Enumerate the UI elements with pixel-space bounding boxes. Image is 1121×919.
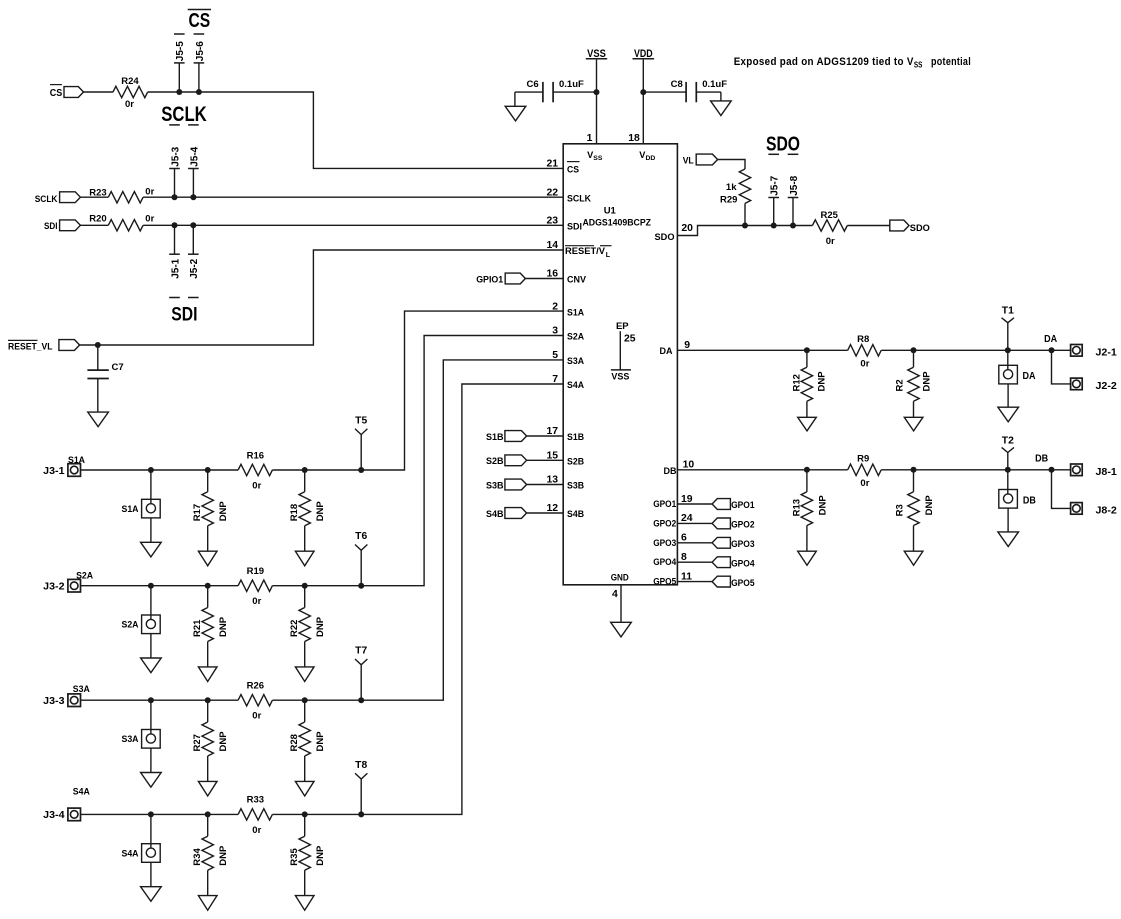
svg-text:0r: 0r — [252, 825, 261, 836]
svg-text:0r: 0r — [860, 478, 869, 489]
connector pad J3-2 — [43, 570, 93, 592]
connector pad J3-3 — [43, 684, 90, 707]
svg-text:CNV: CNV — [567, 275, 587, 285]
wire J2 node down to J2-2 — [1052, 350, 1071, 384]
svg-text:24: 24 — [681, 513, 693, 524]
test point T1 — [1002, 306, 1014, 351]
svg-text:21: 21 — [546, 159, 558, 170]
junction S1A at R18 — [302, 467, 308, 473]
svg-text:DNP: DNP — [924, 495, 935, 516]
svg-text:S2B: S2B — [486, 456, 504, 467]
svg-text:10: 10 — [683, 460, 695, 471]
svg-text:C6: C6 — [527, 79, 539, 90]
svg-text:R24: R24 — [121, 76, 139, 87]
svg-text:R19: R19 — [247, 566, 264, 577]
svg-text:0r: 0r — [826, 236, 835, 247]
svg-text:J2-1: J2-1 — [1096, 347, 1118, 358]
svg-text:DNP: DNP — [315, 616, 326, 637]
svg-text:DNP: DNP — [922, 371, 933, 392]
svg-text:S1B: S1B — [567, 432, 584, 442]
svg-text:GPO2: GPO2 — [653, 518, 676, 528]
wire J3-4 to R33 — [81, 813, 239, 815]
wire R20 to U1 pin 23 — [143, 224, 563, 226]
svg-text:CS: CS — [50, 87, 63, 99]
svg-text:R16: R16 — [247, 450, 264, 461]
ground below R35 — [295, 896, 314, 911]
svg-text:C8: C8 — [671, 79, 683, 90]
svg-text:0r: 0r — [252, 596, 261, 607]
svg-text:VL: VL — [683, 155, 694, 166]
svg-text:VSS: VSS — [587, 48, 606, 60]
power symbol VSS — [586, 48, 607, 144]
svg-text:J5-4: J5-4 — [189, 146, 200, 166]
junction S1A at T5 — [358, 467, 364, 473]
svg-text:R33: R33 — [247, 795, 264, 806]
net label CS (large) — [174, 9, 211, 34]
junction SDI at J5-2 — [190, 222, 196, 228]
test point T2 — [1002, 436, 1014, 470]
svg-text:J3-2: J3-2 — [43, 582, 65, 593]
junction S1A at R17 — [205, 467, 211, 473]
junction DA at R2 — [911, 347, 917, 353]
junction S3A at T7 — [358, 697, 364, 703]
svg-text:J5-3: J5-3 — [170, 146, 181, 166]
svg-text:R8: R8 — [857, 334, 869, 345]
svg-text:T8: T8 — [355, 760, 367, 771]
ground below C8 — [711, 101, 732, 116]
wire RESET_VL to bend then U1 pin 14 — [80, 250, 564, 345]
junction S4A at T8 — [358, 811, 364, 817]
input terminal S4B — [486, 508, 563, 520]
connector pad J8-2 — [1071, 503, 1117, 517]
svg-text:6: 6 — [681, 533, 687, 544]
svg-text:U1: U1 — [604, 205, 617, 216]
resistor R29 1k — [720, 169, 751, 226]
svg-text:8: 8 — [681, 552, 687, 563]
resistor R16 — [238, 450, 272, 491]
input terminal S1B — [486, 431, 563, 443]
svg-text:C7: C7 — [112, 362, 124, 373]
svg-text:1: 1 — [587, 133, 593, 144]
svg-text:J2-2: J2-2 — [1096, 381, 1118, 392]
svg-text:DNP: DNP — [218, 845, 229, 866]
exposed pad EP pin 25 — [611, 321, 636, 383]
svg-text:R3: R3 — [894, 504, 905, 516]
IC U1 ADGS1409BCPZ body — [563, 144, 677, 585]
svg-text:J3-4: J3-4 — [43, 810, 65, 821]
input terminal S3B — [486, 479, 563, 491]
wire R24 to CS bend then to U1 pin 21 — [148, 92, 564, 168]
svg-text:R29: R29 — [720, 194, 737, 205]
junction S3A at R27 — [205, 697, 211, 703]
svg-text:SDI: SDI — [171, 304, 197, 325]
output terminal SDO — [890, 220, 930, 234]
svg-text:T2: T2 — [1002, 436, 1014, 447]
wire J8 node down to J8-2 — [1052, 470, 1071, 509]
svg-text:S2A: S2A — [122, 620, 139, 631]
input terminal S2B — [486, 455, 563, 467]
svg-text:R18: R18 — [289, 504, 300, 521]
capacitor C6 — [515, 79, 597, 106]
svg-text:S3A: S3A — [122, 734, 139, 745]
wire J3-3 to R26 — [81, 699, 239, 701]
junction SCLK at J5-4 — [190, 194, 196, 200]
svg-text:ADGS1409BCPZ: ADGS1409BCPZ — [583, 218, 652, 229]
input terminal CS (net CS-bar) — [50, 85, 84, 99]
junction SDI at J5-1 — [172, 222, 178, 228]
output terminal GPO1 — [677, 499, 755, 512]
svg-text:T6: T6 — [355, 531, 367, 542]
svg-text:CS: CS — [188, 9, 210, 32]
U1 top pin labels — [587, 133, 656, 162]
jumper pin J5-3 — [169, 146, 181, 197]
svg-text:DNP: DNP — [315, 501, 326, 522]
connector pad J3-1 — [43, 455, 85, 477]
svg-text:R2: R2 — [894, 379, 905, 391]
svg-text:Exposed pad on ADGS1209 tied t: Exposed pad on ADGS1209 tied to V — [734, 56, 914, 68]
svg-text:SDI: SDI — [567, 221, 582, 231]
svg-text:J5-5: J5-5 — [175, 41, 186, 61]
svg-text:GPO3: GPO3 — [653, 538, 676, 548]
wire R19 to bend then U1 — [272, 336, 563, 586]
svg-text:RESET_VL: RESET_VL — [8, 342, 53, 353]
junction S4A at R34 — [205, 811, 211, 817]
test point pad S1A — [122, 470, 161, 542]
svg-text:J8-2: J8-2 — [1096, 505, 1118, 516]
net label SDI (large) — [169, 298, 198, 326]
svg-text:S2A: S2A — [567, 332, 584, 342]
svg-text:R26: R26 — [247, 681, 264, 692]
U1 right pin names and numbers — [653, 223, 694, 587]
resistor R33 — [238, 795, 272, 836]
U1 left pin names — [565, 162, 612, 520]
svg-text:S2B: S2B — [567, 457, 584, 467]
wire R16 to bend then U1 — [272, 311, 563, 470]
junction DA at J2 — [1049, 347, 1055, 353]
svg-text:0r: 0r — [145, 186, 154, 197]
svg-text:R13: R13 — [791, 499, 802, 516]
svg-text:0r: 0r — [252, 480, 261, 491]
svg-text:19: 19 — [681, 494, 693, 505]
svg-text:DNP: DNP — [816, 371, 827, 392]
svg-text:DA: DA — [660, 346, 673, 356]
svg-text:GPO1: GPO1 — [653, 499, 676, 509]
svg-text:DB: DB — [1023, 495, 1036, 506]
svg-text:0.1uF: 0.1uF — [702, 79, 727, 90]
junction SCLK at J5-3 — [172, 194, 178, 200]
wire J3-2 to R19 — [81, 585, 239, 587]
svg-text:S3A: S3A — [73, 684, 90, 695]
wire R25 to SDO terminal — [847, 225, 890, 227]
junction S2A at R21 — [205, 583, 211, 589]
svg-text:GPIO1: GPIO1 — [476, 275, 504, 286]
ground below S1A pad — [141, 542, 162, 557]
svg-text:GPO4: GPO4 — [731, 558, 755, 569]
svg-text:DNP: DNP — [315, 731, 326, 752]
svg-text:S1A: S1A — [68, 455, 85, 466]
output terminal GPO5 — [677, 576, 755, 589]
jumper pin J5-2 — [188, 225, 200, 278]
junction DA at R12 — [804, 347, 810, 353]
test point pad S2A — [122, 586, 161, 658]
svg-text:DNP: DNP — [818, 495, 829, 516]
resistor R34 DNP — [192, 814, 229, 895]
jumper pin J5-4 — [188, 146, 200, 197]
connector pad J2-2 — [1071, 378, 1117, 392]
svg-text:S3B: S3B — [486, 480, 504, 491]
capacitor C7 — [87, 345, 123, 412]
svg-text:SS: SS — [914, 61, 923, 70]
svg-text:R22: R22 — [289, 620, 300, 637]
test point pad DA — [999, 350, 1036, 407]
svg-text:SCLK: SCLK — [567, 193, 591, 203]
svg-text:T5: T5 — [355, 415, 367, 426]
resistor R35 DNP — [289, 814, 326, 895]
resistor R12 DNP — [791, 350, 827, 417]
test point T6 — [355, 531, 367, 586]
svg-text:0r: 0r — [860, 359, 869, 370]
jumper pin J5-7 — [768, 175, 780, 225]
svg-text:DNP: DNP — [218, 501, 229, 522]
svg-text:DA: DA — [1044, 334, 1058, 345]
svg-text:S1B: S1B — [486, 432, 504, 443]
ground below R3 — [904, 551, 923, 565]
svg-text:R23: R23 — [89, 187, 106, 198]
junction S3A at test pad — [148, 697, 154, 703]
resistor R3 DNP — [894, 470, 935, 551]
connector pad J2-1 — [1071, 345, 1117, 359]
resistor R21 DNP — [192, 586, 229, 667]
input terminal GPIO1 — [476, 273, 563, 286]
ground below U1 pin 4 — [611, 622, 632, 637]
connector pad J8-1 — [1071, 464, 1117, 478]
svg-text:CS: CS — [567, 165, 579, 175]
resistor R17 DNP — [192, 470, 229, 551]
svg-text:20: 20 — [681, 223, 693, 234]
junction SDO at J5-8 — [790, 223, 796, 229]
svg-text:R28: R28 — [289, 734, 300, 751]
svg-text:GPO3: GPO3 — [731, 539, 755, 550]
svg-text:18: 18 — [628, 133, 640, 144]
junction VSS/C6 — [594, 89, 600, 95]
resistor R18 DNP — [289, 470, 326, 551]
svg-text:R21: R21 — [192, 619, 203, 637]
node label DB — [1035, 454, 1048, 465]
svg-text:SDO: SDO — [910, 223, 930, 234]
test point T5 — [355, 415, 367, 470]
junction SDO at R29 — [742, 223, 748, 229]
svg-text:SDO: SDO — [766, 133, 800, 156]
junction DB at J8 — [1049, 467, 1055, 473]
resistor R24 — [113, 76, 148, 110]
wire SCLK terminal to R23 — [80, 196, 108, 198]
svg-text:GPO4: GPO4 — [653, 557, 677, 567]
ground below R18 — [295, 551, 314, 566]
svg-text:GPO1: GPO1 — [731, 500, 755, 511]
junction S2A at T6 — [358, 583, 364, 589]
capacitor C8 — [643, 79, 727, 102]
jumper pin J5-8 — [788, 175, 800, 225]
junction S2A at test pad — [148, 583, 154, 589]
svg-text:4: 4 — [612, 589, 618, 600]
junction DB at R13 — [804, 467, 810, 473]
svg-text:RESET/V: RESET/V — [565, 246, 606, 256]
jumper pin J5-1 — [169, 225, 181, 278]
svg-text:T1: T1 — [1002, 306, 1014, 317]
resistor R9 — [848, 454, 882, 489]
svg-text:S4B: S4B — [567, 509, 584, 519]
junction VDD/C8 — [640, 89, 646, 95]
svg-text:J5-6: J5-6 — [195, 41, 206, 61]
svg-text:J5-1: J5-1 — [170, 258, 181, 278]
resistor R22 DNP — [289, 586, 326, 667]
wire U1 pin 9 DA to J2-1 — [677, 349, 847, 351]
svg-text:GPO2: GPO2 — [731, 520, 755, 531]
U1 left pin numbers — [546, 159, 558, 515]
svg-text:GPO5: GPO5 — [653, 577, 676, 587]
ground below DB pad — [998, 532, 1019, 547]
svg-text:S1A: S1A — [567, 307, 584, 317]
input terminal VL — [683, 154, 718, 166]
svg-text:0r: 0r — [252, 711, 261, 722]
jumper pin J5-5 — [174, 41, 186, 92]
svg-text:DD: DD — [646, 155, 656, 162]
svg-text:VDD: VDD — [634, 48, 653, 60]
ground below R21 — [198, 667, 217, 682]
U1 bottom pin GND (pin 4) — [611, 572, 629, 622]
svg-text:11: 11 — [681, 571, 692, 582]
ground below S2A pad — [141, 658, 162, 673]
svg-text:J3-3: J3-3 — [43, 696, 65, 707]
svg-text:J5-7: J5-7 — [770, 175, 781, 195]
junction S4A at test pad — [148, 811, 154, 817]
wire R33 to bend then U1 — [272, 384, 563, 814]
input terminal SCLK — [35, 192, 81, 205]
svg-text:DB: DB — [1035, 454, 1048, 465]
wire J3-1 to R16 — [81, 469, 239, 471]
svg-text:S2A: S2A — [76, 570, 93, 581]
ground below R22 — [295, 667, 314, 682]
svg-text:SCLK: SCLK — [35, 194, 58, 205]
svg-text:J5-2: J5-2 — [189, 258, 200, 278]
svg-text:9: 9 — [684, 340, 690, 351]
svg-text:R25: R25 — [820, 210, 838, 221]
ground below DA pad — [998, 407, 1019, 422]
svg-text:J3-1: J3-1 — [43, 466, 65, 477]
ground below S3A pad — [141, 773, 162, 788]
svg-text:S4A: S4A — [73, 787, 90, 798]
wire R26 to bend then U1 — [272, 360, 563, 700]
svg-text:R34: R34 — [192, 848, 203, 866]
ground below R17 — [198, 551, 217, 566]
svg-text:0r: 0r — [125, 99, 134, 110]
svg-text:S3A: S3A — [567, 356, 584, 366]
svg-text:S1A: S1A — [122, 504, 139, 515]
svg-text:14: 14 — [546, 240, 558, 251]
output terminal GPO2 — [677, 518, 754, 531]
junction RESET_VL at C7 — [95, 342, 101, 348]
test point pad DB — [999, 470, 1036, 532]
input terminal RESET_VL — [8, 340, 80, 353]
ground below R34 — [198, 896, 217, 911]
net label SCLK (large) — [161, 102, 207, 126]
wire U1 pin 10 DB to J8-1 — [677, 469, 847, 471]
input terminal SDI — [44, 220, 80, 232]
svg-text:SCLK: SCLK — [161, 102, 207, 126]
svg-text:0.1uF: 0.1uF — [559, 79, 584, 90]
wire U1 pin 20 SDO jog — [677, 226, 812, 236]
resistor R8 — [848, 334, 882, 369]
svg-text:DNP: DNP — [218, 731, 229, 752]
svg-text:R35: R35 — [289, 848, 300, 866]
wire VL to R29 — [718, 160, 745, 170]
svg-text:R17: R17 — [192, 504, 203, 521]
svg-text:potential: potential — [931, 56, 971, 68]
junction on CS wire at J5-6 — [196, 89, 202, 95]
junction DA at T1 — [1005, 347, 1011, 353]
svg-text:23: 23 — [546, 216, 558, 227]
svg-text:S4A: S4A — [567, 380, 584, 390]
svg-text:DB: DB — [664, 466, 677, 476]
svg-text:SS: SS — [593, 155, 603, 162]
junction S3A at R28 — [302, 697, 308, 703]
power symbol VDD — [633, 48, 655, 144]
svg-text:DA: DA — [1023, 371, 1037, 382]
junction S2A at R22 — [302, 583, 308, 589]
ground below C6 — [505, 106, 526, 121]
test point T8 — [355, 760, 367, 815]
jumper pin J5-6 — [194, 41, 206, 92]
svg-text:VSS: VSS — [611, 372, 629, 383]
resistor R20 — [89, 213, 154, 231]
node label DA — [1044, 334, 1058, 345]
svg-text:T7: T7 — [355, 646, 367, 657]
svg-text:GPO5: GPO5 — [731, 578, 755, 589]
resistor R28 DNP — [289, 700, 326, 781]
svg-text:SDI: SDI — [44, 221, 58, 232]
svg-text:S4A: S4A — [122, 848, 139, 859]
junction S4A at R35 — [302, 811, 308, 817]
svg-text:R27: R27 — [192, 734, 203, 751]
net label SDO (large) — [766, 133, 800, 156]
junction DB at T2 — [1005, 467, 1011, 473]
svg-text:S3B: S3B — [567, 481, 584, 491]
connector pad J3-4 — [43, 787, 90, 822]
ground below R13 — [798, 551, 817, 565]
wire R23 to U1 pin 22 — [143, 196, 563, 198]
resistor R26 — [238, 681, 272, 722]
svg-text:R12: R12 — [791, 374, 802, 391]
output terminal GPO3 — [677, 537, 754, 550]
output terminal GPO4 — [677, 557, 755, 570]
resistor R27 DNP — [192, 700, 229, 781]
svg-text:22: 22 — [546, 187, 558, 198]
svg-text:EP: EP — [616, 321, 629, 332]
ground below R2 — [904, 417, 923, 431]
svg-text:J8-1: J8-1 — [1096, 467, 1118, 478]
note: exposed pad — [734, 56, 971, 70]
wire R8 to J2-1 pad — [881, 349, 1070, 351]
svg-text:1k: 1k — [726, 182, 737, 193]
svg-text:25: 25 — [624, 333, 636, 344]
resistor R13 DNP — [791, 470, 828, 551]
ground below R28 — [295, 781, 314, 796]
ground below S4A pad — [141, 887, 162, 902]
svg-text:R9: R9 — [857, 454, 869, 465]
svg-text:DNP: DNP — [315, 845, 326, 866]
ground below R12 — [798, 417, 817, 431]
svg-text:S4B: S4B — [486, 509, 504, 520]
